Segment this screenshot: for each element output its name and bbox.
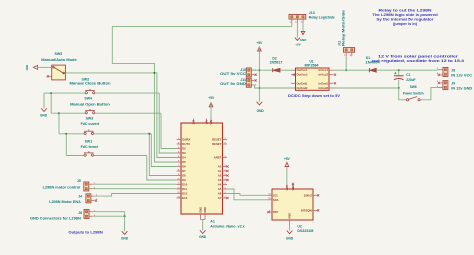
svg-text:GND: GND <box>300 38 308 42</box>
svg-text:InGnd2: InGnd2 <box>319 86 329 90</box>
svg-text:Manual Close Button: Manual Close Button <box>70 82 111 86</box>
svg-text:GND: GND <box>199 235 207 239</box>
svg-text:Arduino_Nano_v2.x: Arduino_Nano_v2.x <box>210 224 244 228</box>
svg-text:D4: D4 <box>182 156 186 160</box>
svg-text:D5: D5 <box>182 160 186 164</box>
svg-text:VBAT: VBAT <box>291 183 295 190</box>
svg-text:IN 12v GND: IN 12v GND <box>451 86 472 90</box>
svg-text:A5: A5 <box>218 187 222 191</box>
svg-text:A7: A7 <box>218 196 222 200</box>
svg-text:OUT 5v GND: OUT 5v GND <box>220 82 247 86</box>
svg-text:INT/SQW: INT/SQW <box>301 208 313 212</box>
svg-text:D2: D2 <box>182 147 186 151</box>
svg-text:D12: D12 <box>182 192 188 196</box>
svg-text:GND: GND <box>286 237 294 241</box>
svg-text:SW4: SW4 <box>84 96 92 100</box>
svg-text:FdC fermé: FdC fermé <box>81 145 99 149</box>
svg-text:A4: A4 <box>218 183 222 187</box>
svg-text:SW6: SW6 <box>410 85 417 89</box>
svg-text:220uF: 220uF <box>406 78 415 82</box>
svg-text:IN 12v VCC: IN 12v VCC <box>451 73 472 77</box>
svg-text:GND: GND <box>25 65 29 71</box>
svg-text:32KHZ: 32KHZ <box>304 193 313 197</box>
svg-text:Relay MotorSide: Relay MotorSide <box>342 10 346 46</box>
svg-text:A2: A2 <box>218 174 222 178</box>
svg-text:InGnd1: InGnd1 <box>319 81 329 85</box>
svg-text:D13: D13 <box>182 196 188 200</box>
svg-text:D0/RX: D0/RX <box>182 138 190 142</box>
svg-text:A1: A1 <box>210 220 215 224</box>
svg-text:OutVcc1: OutVcc1 <box>297 68 309 72</box>
svg-text:J9: J9 <box>451 82 455 86</box>
svg-text:InVcc1: InVcc1 <box>319 68 329 72</box>
svg-text:OutVcc2: OutVcc2 <box>297 73 309 77</box>
svg-text:AREF: AREF <box>214 156 222 160</box>
svg-text:12 V from solar panel controll: 12 V from solar panel controller <box>378 55 459 59</box>
svg-text:GND Connectors for L298N: GND Connectors for L298N <box>30 217 81 221</box>
svg-text:A0: A0 <box>218 165 222 169</box>
svg-text:OutGnd1: OutGnd1 <box>297 81 309 85</box>
svg-text:SW1: SW1 <box>85 140 93 144</box>
svg-text:3V3: 3V3 <box>192 119 196 124</box>
svg-text:SDA: SDA <box>273 198 279 202</box>
svg-text:A6: A6 <box>218 192 222 196</box>
svg-text:D7: D7 <box>182 169 186 173</box>
svg-text:VCC: VCC <box>285 185 289 191</box>
svg-text:Manual Open Button: Manual Open Button <box>70 102 110 106</box>
svg-text:DS3231M: DS3231M <box>297 229 313 233</box>
svg-text:Outputs to L298N: Outputs to L298N <box>68 231 103 235</box>
svg-text:SW5: SW5 <box>55 52 63 56</box>
svg-text:InVcc2: InVcc2 <box>319 73 329 77</box>
svg-text:FdC ouvert: FdC ouvert <box>81 122 100 126</box>
svg-text:OUT 5v VCC: OUT 5v VCC <box>220 72 247 76</box>
svg-text:+5V: +5V <box>284 157 291 161</box>
svg-text:L298N Motor ENA: L298N Motor ENA <box>49 200 81 204</box>
svg-text:MP1584: MP1584 <box>305 64 319 68</box>
svg-text:J5: J5 <box>77 179 81 183</box>
svg-text:RESET: RESET <box>212 142 221 146</box>
svg-text:GND: GND <box>288 213 292 219</box>
svg-text:D6: D6 <box>182 165 186 169</box>
svg-text:GND: GND <box>203 207 207 213</box>
svg-text:+5V: +5V <box>295 43 300 47</box>
svg-text:D10: D10 <box>182 183 188 187</box>
svg-text:OutGnd2: OutGnd2 <box>297 86 309 90</box>
svg-text:VIN: VIN <box>209 120 213 124</box>
svg-text:A1: A1 <box>218 169 222 173</box>
svg-text:1N5817: 1N5817 <box>270 61 283 65</box>
svg-text:D9: D9 <box>182 178 186 182</box>
svg-text:by the internal 5v regulator: by the internal 5v regulator <box>377 18 435 22</box>
svg-text:D3: D3 <box>182 151 186 155</box>
svg-text:A3: A3 <box>218 178 222 182</box>
svg-text:RESET: RESET <box>212 138 221 142</box>
svg-text:GND: GND <box>121 236 129 240</box>
svg-text:Relay to cut the L298N: Relay to cut the L298N <box>379 9 433 13</box>
svg-text:J6: J6 <box>78 211 82 215</box>
svg-text:GND: GND <box>257 109 265 113</box>
svg-text:GND: GND <box>40 113 48 117</box>
svg-text:SW3: SW3 <box>86 116 94 120</box>
svg-text:J13: J13 <box>309 11 315 15</box>
svg-text:L298N motor control: L298N motor control <box>43 185 81 189</box>
svg-text:D11: D11 <box>182 187 187 191</box>
svg-text:GND: GND <box>199 207 203 213</box>
svg-text:J8: J8 <box>451 69 455 73</box>
svg-text:not regulated, oscillate from: not regulated, oscillate from 12 to 15.4 <box>372 59 464 63</box>
svg-text:(jumper is in): (jumper is in) <box>393 22 417 26</box>
svg-text:D1/TX: D1/TX <box>182 142 190 146</box>
svg-text:+5V: +5V <box>205 120 209 125</box>
svg-text:SCL: SCL <box>273 193 279 197</box>
svg-text:J4: J4 <box>78 194 82 198</box>
svg-text:C1: C1 <box>406 73 410 77</box>
svg-text:D1: D1 <box>366 56 370 60</box>
svg-text:The L298N logic side is powere: The L298N logic side is powered <box>372 13 438 17</box>
svg-text:+5V: +5V <box>257 41 264 45</box>
svg-text:RST: RST <box>273 210 279 214</box>
svg-text:Manual/Auto Mode: Manual/Auto Mode <box>41 58 76 62</box>
svg-text:Relay LogicSide: Relay LogicSide <box>309 16 335 20</box>
svg-text:+5V: +5V <box>208 96 215 100</box>
svg-text:Power Switch: Power Switch <box>403 91 424 95</box>
svg-text:D8: D8 <box>182 174 186 178</box>
svg-text:DC/DC Step down set to 5V: DC/DC Step down set to 5V <box>288 94 341 98</box>
